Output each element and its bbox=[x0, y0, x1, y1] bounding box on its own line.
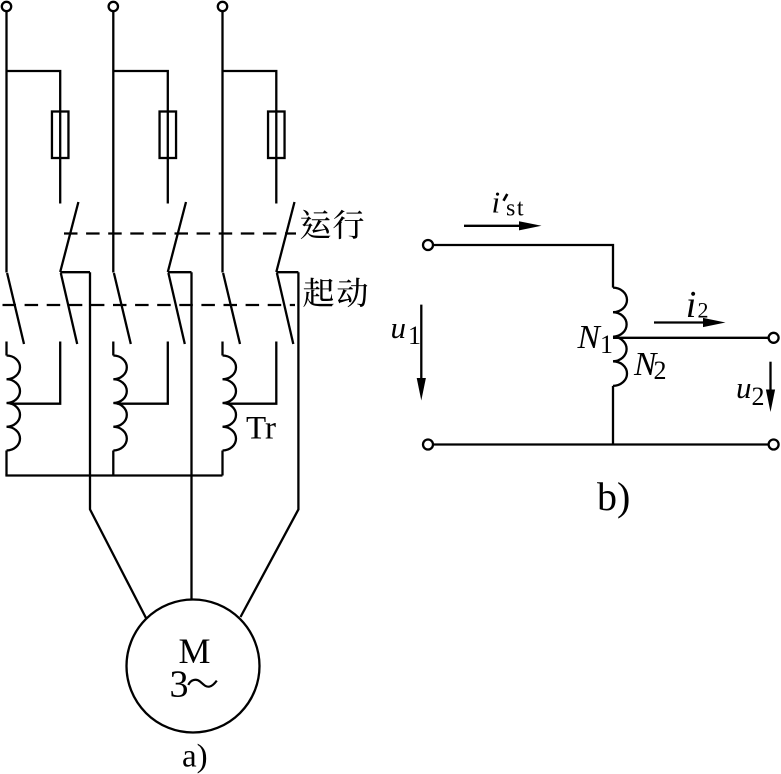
svg-text:2: 2 bbox=[654, 356, 667, 385]
wire: phase 2 supply line down bbox=[112, 11, 114, 272]
contact: start contactor pole A (phase 3, supply side) bbox=[223, 273, 240, 344]
wire: motor line phase 2 bbox=[190, 272, 192, 600]
terminal L1 (phase 1 supply terminal) bbox=[2, 2, 11, 11]
svg-text:u: u bbox=[391, 310, 407, 345]
svg-text:u: u bbox=[736, 370, 752, 405]
wire: tap to output terminal bbox=[613, 337, 769, 339]
arrow: i2 current bbox=[654, 318, 726, 327]
contact: run contactor pole (phase 2) bbox=[168, 202, 186, 272]
wire: tap lead down from start contact (phase 1) bbox=[11, 342, 61, 404]
dashed linkage: run contactor bbox=[64, 232, 296, 234]
arrow: u1 voltage bbox=[417, 305, 426, 401]
svg-text:i: i bbox=[492, 184, 501, 219]
wire: phase 1 supply line down bbox=[5, 11, 7, 272]
svg-text:b): b) bbox=[597, 474, 630, 519]
terminal L2 (phase 2 supply terminal) bbox=[109, 2, 118, 11]
contact: start contactor pole A (phase 1, supply side) bbox=[7, 273, 24, 344]
wire: coil bottom to star point (phase 2) bbox=[112, 451, 114, 476]
label: start (Chinese) bbox=[303, 278, 367, 308]
contact: start contactor pole B (phase 3, tap side) bbox=[277, 273, 293, 344]
svg-text:Tr: Tr bbox=[246, 411, 276, 447]
terminal L3 (phase 3 supply terminal) bbox=[218, 2, 227, 11]
contact: start contactor pole B (phase 1, tap side) bbox=[61, 273, 77, 344]
wire: motor line phase 1 bbox=[90, 272, 146, 618]
wire: tap lead down from start contact (phase 3) bbox=[227, 342, 277, 404]
fuse FU1 bbox=[52, 112, 68, 159]
svg-text:1: 1 bbox=[408, 321, 421, 350]
fuse FU2 bbox=[160, 112, 177, 159]
wire: lower contact stub to coil top (phase 3) bbox=[221, 342, 223, 356]
wire: junction to motor line (phase 2) bbox=[168, 271, 192, 273]
fuse FU3 bbox=[268, 112, 285, 159]
wire: motor line phase 3 bbox=[241, 272, 299, 617]
contact: start contactor pole B (phase 2, tap side) bbox=[168, 273, 184, 344]
wire: phase 1 branch to fuse bbox=[7, 71, 61, 204]
wire: junction to motor line (phase 1) bbox=[60, 271, 90, 273]
terminal: output bottom bbox=[769, 440, 779, 450]
wire: star-point line joining the three winding ends bbox=[5, 474, 222, 476]
winding N1+N2 bbox=[613, 288, 627, 386]
label: run (Chinese) bbox=[301, 210, 364, 239]
terminal: output mid (u2 +) bbox=[769, 333, 779, 343]
wire: coil bottom to star point (phase 1) bbox=[5, 451, 7, 476]
svg-text:1: 1 bbox=[600, 330, 613, 359]
arrow: u2 voltage bbox=[766, 362, 775, 412]
dashed linkage: start contactor bbox=[3, 304, 296, 306]
svg-text:a): a) bbox=[182, 739, 208, 774]
wire: top conductor bbox=[433, 245, 613, 288]
contact: run contactor pole (phase 3) bbox=[276, 202, 294, 272]
svg-text:2: 2 bbox=[752, 382, 765, 411]
terminal: input top bbox=[423, 240, 433, 250]
svg-text:st: st bbox=[506, 196, 525, 222]
arrow: i'st current bbox=[464, 221, 542, 230]
motor M circle bbox=[127, 600, 260, 733]
wire: coil bottom to star point (phase 3) bbox=[221, 451, 223, 476]
terminal: input bottom bbox=[423, 440, 433, 450]
autotransformer winding (phase 2) bbox=[113, 356, 126, 451]
wire: lower contact stub to coil top (phase 1) bbox=[5, 342, 7, 356]
wire: tap lead down from start contact (phase 2) bbox=[117, 342, 168, 404]
wire: bottom conductor bbox=[433, 443, 769, 445]
contact: start contactor pole A (phase 2, supply side) bbox=[114, 273, 131, 344]
wire: winding bottom down bbox=[612, 386, 614, 445]
autotransformer winding (phase 1) bbox=[7, 356, 21, 451]
wire: phase 3 supply line down bbox=[221, 11, 223, 272]
svg-text:2: 2 bbox=[698, 298, 709, 323]
wire: junction to motor line (phase 3) bbox=[276, 271, 298, 273]
wire: phase 2 branch to fuse bbox=[113, 71, 168, 204]
svg-text:i: i bbox=[686, 284, 697, 326]
contact: run contactor pole (phase 1) bbox=[60, 202, 78, 272]
wire: phase 3 branch to fuse bbox=[223, 71, 277, 204]
svg-text:3: 3 bbox=[170, 664, 189, 706]
wire: lower contact stub to coil top (phase 2) bbox=[112, 342, 114, 356]
svg-text:N: N bbox=[577, 319, 602, 356]
autotransformer winding (phase 3) bbox=[223, 356, 237, 451]
